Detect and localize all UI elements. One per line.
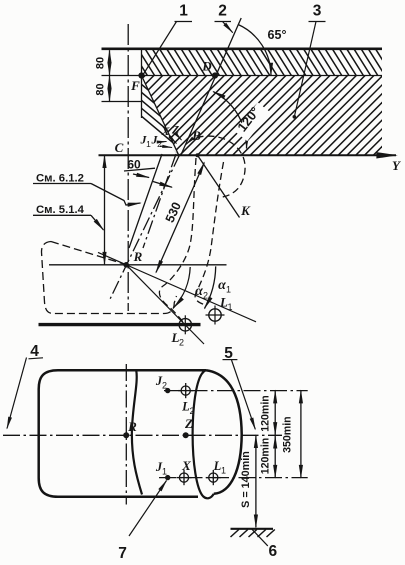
svg-text:α: α <box>218 278 226 293</box>
zone dashed left edge <box>159 158 196 322</box>
svg-text:7: 7 <box>118 545 127 562</box>
svg-text:Y: Y <box>392 158 401 173</box>
point F <box>138 72 144 78</box>
hatched lower band section <box>57 76 405 156</box>
line R to L2 <box>126 265 204 344</box>
120 degree arc solid <box>213 92 246 149</box>
svg-text:6: 6 <box>268 543 277 560</box>
leader label 7 <box>129 481 167 537</box>
vertical centerline C <box>127 24 129 311</box>
torso line hatch boundary F to axis <box>142 76 179 156</box>
dimension line S=140 <box>255 435 257 527</box>
horizontal centerline plan <box>3 434 282 436</box>
band line S1 solid <box>129 154 162 248</box>
leader of label 3 <box>295 22 317 117</box>
outer bulge curve <box>206 370 242 494</box>
svg-text:K: K <box>240 203 251 218</box>
svg-text:2: 2 <box>179 338 184 348</box>
svg-text:1: 1 <box>227 302 232 312</box>
svg-text:X: X <box>181 458 191 473</box>
point R <box>123 262 129 268</box>
svg-text:4: 4 <box>30 343 39 360</box>
B leader arrow <box>186 138 193 145</box>
leader label 5 <box>232 360 256 429</box>
svg-text:α: α <box>195 284 203 299</box>
K line from crossing point <box>198 155 240 217</box>
alpha1 arc <box>205 266 216 308</box>
horizontal line through R <box>49 264 227 266</box>
seat outline dashed <box>51 242 124 265</box>
svg-text:См. 6.1.2: См. 6.1.2 <box>36 173 84 185</box>
530 dimension line <box>156 163 204 273</box>
J2 row line <box>164 390 308 392</box>
hatched upper band section <box>124 49 393 76</box>
wavy left curve <box>132 371 142 495</box>
120 degree arc dashed continuation <box>197 136 246 197</box>
svg-text:X: X <box>160 124 170 138</box>
dimension 80/80 vertical line <box>109 50 111 75</box>
leader label 4 <box>7 358 27 429</box>
svg-text:F: F <box>130 78 140 93</box>
middle curve <box>193 370 214 498</box>
svg-text:R: R <box>127 419 137 434</box>
svg-text:См. 5.1.4: См. 5.1.4 <box>36 204 85 216</box>
J1J2 leader arrows <box>158 141 167 144</box>
dimension line 350 <box>300 391 302 478</box>
svg-text:120min: 120min <box>260 395 272 432</box>
leader of label 1 to F <box>144 22 177 75</box>
vertical line through R plan <box>125 364 127 505</box>
leader Sm 6.1.2 <box>91 184 141 206</box>
svg-text:1: 1 <box>226 285 231 295</box>
65 degree arc <box>238 24 271 75</box>
J1 row line <box>159 477 308 479</box>
ground line top figure <box>39 323 201 326</box>
alpha2 arc <box>174 267 190 308</box>
ground symbol bottom <box>231 528 274 530</box>
leader of label 2 <box>223 22 233 33</box>
leader Sm 5.1.4 <box>91 215 104 230</box>
band line T1 dash-dot (60 offset) <box>143 154 176 248</box>
svg-text:D: D <box>201 59 212 74</box>
target symbols bottom <box>181 386 190 395</box>
svg-text:2: 2 <box>157 139 162 149</box>
L1 target symbol top <box>209 309 221 321</box>
hatched sliver wedge at torso line <box>72 74 276 158</box>
svg-text:B: B <box>191 128 201 143</box>
svg-text:2: 2 <box>162 381 167 391</box>
svg-text:3: 3 <box>313 3 322 20</box>
svg-text:2: 2 <box>203 291 208 301</box>
dimension line 120/120 <box>274 391 276 435</box>
svg-text:80: 80 <box>95 57 107 69</box>
svg-text:80: 80 <box>95 83 107 95</box>
svg-text:Z: Z <box>171 123 180 137</box>
top border line of section <box>102 47 383 50</box>
extension line y=101.5 <box>102 101 143 103</box>
zone dashed right edge <box>195 162 223 305</box>
point D <box>212 72 218 78</box>
svg-text:2: 2 <box>189 406 194 416</box>
svg-text:65°: 65° <box>268 28 287 42</box>
hatch left edge vertical <box>141 49 143 118</box>
svg-text:2: 2 <box>218 3 227 20</box>
band boundary line through F and D <box>102 75 383 77</box>
svg-text:Z: Z <box>184 416 193 431</box>
crossing point on axis <box>196 153 200 157</box>
svg-text:1: 1 <box>179 3 188 20</box>
vertical dimension line C-R <box>104 155 106 264</box>
65 degree line through D to B <box>181 18 241 155</box>
line R to L1 <box>98 252 256 321</box>
svg-text:1: 1 <box>221 466 226 476</box>
seat plan outline rounded rect <box>39 370 206 497</box>
label 120deg <box>235 102 270 141</box>
svg-text:350min: 350min <box>282 416 294 453</box>
leader label 6 <box>252 529 268 546</box>
svg-text:R: R <box>133 249 143 264</box>
point dots bottom <box>165 388 170 393</box>
60 dimension arrows <box>133 174 149 178</box>
svg-text:120min: 120min <box>260 438 272 475</box>
svg-text:C: C <box>115 140 124 155</box>
Y axis line <box>99 154 397 156</box>
XZ leader arrows <box>169 136 177 144</box>
svg-text:S = 140min: S = 140min <box>240 451 252 508</box>
svg-text:1: 1 <box>162 467 167 477</box>
torso line dash-dot through R <box>110 154 180 299</box>
svg-text:1: 1 <box>146 139 151 149</box>
